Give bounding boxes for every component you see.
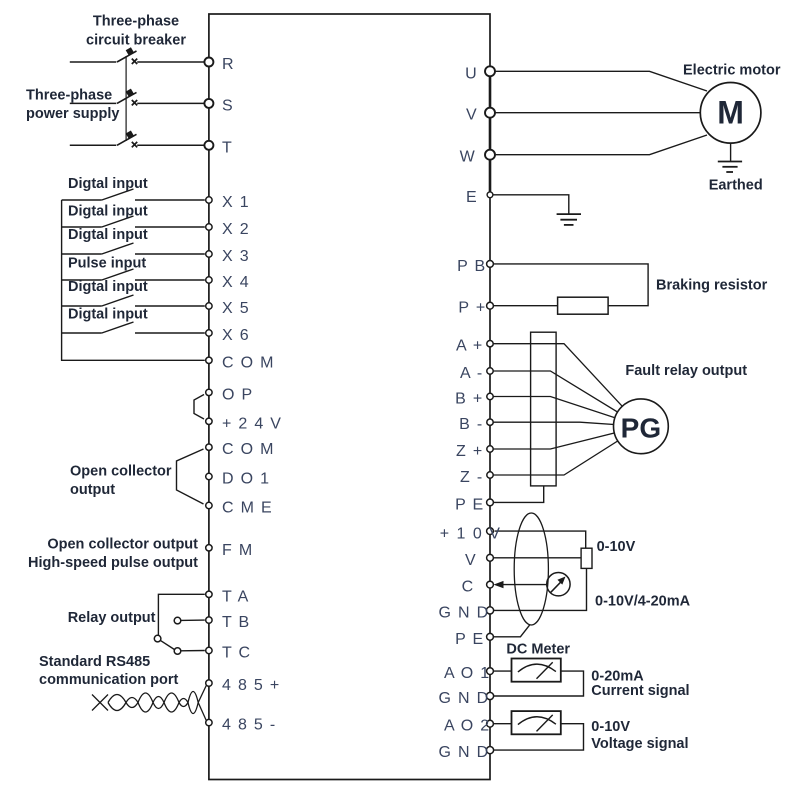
svg-text:0-10V/4-20mA: 0-10V/4-20mA — [595, 593, 691, 609]
terminal C — [462, 579, 494, 596]
svg-text:communication port: communication port — [39, 672, 179, 688]
svg-text:A O 2: A O 2 — [444, 718, 491, 735]
breaker pole R wire left — [70, 61, 117, 63]
wire motor to ground — [730, 143, 732, 161]
wiper adjuster — [547, 573, 570, 596]
wire Z+ to PG — [493, 426, 641, 449]
wire P+ to resistor — [494, 305, 558, 307]
breaker cross R — [132, 59, 137, 64]
jumper OP to +24V — [194, 395, 204, 420]
svg-text:S: S — [222, 97, 234, 114]
svg-text:C: C — [462, 579, 475, 596]
svg-text:Z -: Z - — [460, 469, 483, 486]
label digtal input X3 — [68, 227, 148, 243]
svg-text:W: W — [460, 149, 476, 166]
motor M1 — [700, 83, 761, 144]
wire right edge thick U-E — [489, 66, 492, 195]
svg-text:High-speed pulse output: High-speed pulse output — [28, 555, 198, 571]
svg-text:P E: P E — [455, 496, 484, 513]
terminal PE2 — [455, 631, 493, 648]
svg-text:0-20mA: 0-20mA — [591, 669, 644, 685]
svg-text:R: R — [222, 56, 235, 73]
svg-text:M: M — [717, 95, 744, 131]
wire PE to block — [493, 486, 544, 503]
wire B- to PG — [493, 422, 641, 426]
terminal Z- — [460, 469, 493, 486]
encoder PG — [614, 399, 669, 454]
bracket COM-DO1-CME open collector — [177, 449, 204, 504]
terminal AO1 — [444, 665, 493, 682]
switch X3 — [62, 243, 205, 254]
breaker blade R — [117, 47, 137, 62]
svg-text:E: E — [466, 189, 478, 206]
svg-text:X 3: X 3 — [222, 248, 250, 265]
svg-text:Three-phase: Three-phase — [26, 88, 112, 104]
svg-text:F M: F M — [222, 542, 253, 559]
wire V to pot — [493, 557, 581, 559]
label digtal input X2 — [68, 204, 148, 220]
svg-text:+ 2 4 V: + 2 4 V — [222, 415, 282, 432]
svg-text:0-10V: 0-10V — [597, 539, 636, 555]
svg-text:Digtal input: Digtal input — [68, 176, 148, 192]
terminal P+ — [458, 300, 493, 317]
svg-text:C M E: C M E — [222, 500, 273, 517]
wire Z- to PG — [493, 426, 641, 475]
breaker cross T — [132, 142, 137, 147]
wire PE2 to shield — [494, 625, 530, 637]
svg-text:power supply: power supply — [26, 106, 119, 122]
svg-text:X 2: X 2 — [222, 221, 250, 238]
breaker pole T wire left — [70, 144, 117, 146]
terminal X5 — [206, 300, 250, 317]
svg-text:A -: A - — [460, 365, 483, 382]
wire meter2 to GND — [494, 724, 584, 750]
svg-text:D O 1: D O 1 — [222, 471, 270, 488]
shield ellipse — [514, 513, 548, 625]
wire twisted pair to 485- — [198, 703, 206, 722]
svg-text:Digtal input: Digtal input — [68, 307, 148, 323]
terminal T — [204, 139, 233, 156]
svg-text:Standard RS485: Standard RS485 — [39, 654, 150, 670]
relay wire TA — [158, 594, 204, 636]
svg-text:Electric motor: Electric motor — [683, 63, 781, 79]
twisted pair cable — [92, 692, 198, 714]
relay contact TB — [174, 617, 205, 624]
terminal S — [204, 97, 234, 114]
wire pot to GND — [494, 568, 587, 610]
svg-text:+ 1 0 V: + 1 0 V — [440, 526, 502, 543]
svg-text:P E: P E — [455, 631, 484, 648]
svg-text:PG: PG — [621, 412, 661, 443]
svg-text:Three-phase: Three-phase — [93, 14, 179, 30]
wire AO2 to meter — [494, 723, 512, 725]
terminal X6 — [206, 327, 250, 344]
label three-phase circuit breaker — [86, 14, 186, 49]
wire meter1 to GND — [494, 671, 584, 696]
label relay output — [68, 610, 156, 626]
svg-text:Earthed: Earthed — [709, 178, 763, 194]
braking resistor RB — [558, 297, 609, 314]
terminal FM — [206, 542, 254, 559]
svg-text:Voltage signal: Voltage signal — [591, 736, 688, 752]
wire PB loop — [494, 264, 649, 306]
wire B+ to PG — [493, 397, 641, 427]
label open collector output DO1 — [70, 464, 172, 499]
breaker pole S wire left — [70, 102, 117, 104]
wire U to motor — [495, 71, 707, 91]
label fault relay output — [625, 363, 747, 379]
breaker cross S — [132, 100, 137, 105]
svg-text:O P: O P — [222, 386, 253, 403]
wire A- to PG — [493, 371, 641, 426]
svg-text:Open collector output: Open collector output — [47, 536, 198, 552]
label digtal input X1 — [68, 176, 148, 192]
svg-text:B -: B - — [459, 416, 483, 433]
svg-text:T B: T B — [222, 614, 251, 631]
terminal V — [466, 107, 495, 124]
terminal DO1 — [206, 471, 271, 488]
svg-text:G N D: G N D — [439, 744, 490, 761]
svg-text:X 1: X 1 — [222, 194, 250, 211]
relay blade — [160, 640, 175, 649]
terminal 485- — [206, 717, 277, 734]
svg-text:output: output — [70, 482, 115, 498]
label digtal input X6 — [68, 307, 148, 323]
terminal GND1 — [439, 604, 494, 621]
label 0-20mA current signal — [591, 669, 689, 700]
svg-text:Current signal: Current signal — [591, 683, 689, 699]
ground symbol E — [557, 214, 581, 225]
terminal B+ — [455, 391, 493, 408]
wire twisted pair to 485+ — [198, 685, 206, 703]
label 0-10V pot — [597, 539, 636, 555]
label 0-10V 4-20mA — [595, 593, 691, 609]
label open collector output FM — [28, 536, 198, 570]
svg-text:X 4: X 4 — [222, 274, 250, 291]
wire AO1 to meter — [494, 670, 512, 672]
switch X4 — [62, 269, 205, 280]
breaker blade T — [117, 131, 137, 146]
potentiometer resistor 0-10V — [581, 548, 592, 568]
switch X1 — [62, 189, 205, 200]
svg-text:X 6: X 6 — [222, 327, 250, 344]
svg-text:DC Meter: DC Meter — [506, 642, 570, 658]
terminal COM2 — [206, 441, 275, 458]
svg-text:V: V — [466, 107, 478, 124]
svg-text:0-10V: 0-10V — [591, 719, 630, 735]
svg-text:A O 1: A O 1 — [444, 665, 491, 682]
svg-text:Digtal input: Digtal input — [68, 279, 148, 295]
terminal GND3 — [439, 744, 494, 761]
terminal TC — [206, 645, 252, 662]
terminal B- — [459, 416, 493, 433]
svg-text:Fault relay output: Fault relay output — [625, 363, 747, 379]
terminal U — [465, 65, 495, 82]
terminal +24V — [206, 415, 283, 432]
svg-text:U: U — [465, 65, 478, 82]
terminal PB — [457, 258, 493, 275]
svg-text:Relay output: Relay output — [68, 610, 156, 626]
wire +10V to pot — [495, 531, 586, 548]
svg-text:C O M: C O M — [222, 354, 275, 371]
wire breaker T to terminal — [137, 144, 204, 146]
svg-text:Digtal input: Digtal input — [68, 227, 148, 243]
label standard RS485 port — [39, 654, 179, 688]
svg-text:P B: P B — [457, 258, 486, 275]
terminal TB — [206, 614, 251, 631]
terminal TA — [206, 588, 250, 605]
svg-text:A +: A + — [456, 338, 483, 355]
digital input common bus to COM — [62, 200, 205, 360]
label pulse input X4 — [68, 256, 146, 272]
terminal A+ — [456, 338, 493, 355]
terminal X4 — [206, 274, 250, 291]
breaker link bar — [125, 56, 127, 141]
wire wiper arrow to C — [494, 581, 548, 588]
svg-text:T: T — [222, 139, 233, 156]
terminal GND2 — [439, 690, 494, 707]
svg-text:Z +: Z + — [456, 443, 483, 460]
relay contact TC — [174, 648, 205, 655]
switch X2 — [62, 216, 205, 227]
label electric motor — [683, 63, 781, 79]
svg-text:X 5: X 5 — [222, 300, 250, 317]
label digtal input X5 — [68, 279, 148, 295]
svg-text:T A: T A — [222, 588, 250, 605]
label earthed — [709, 178, 763, 194]
terminal E — [466, 189, 493, 206]
wire V to motor — [495, 112, 700, 114]
terminal COM — [206, 354, 275, 371]
svg-text:B +: B + — [455, 391, 483, 408]
svg-text:Braking resistor: Braking resistor — [656, 278, 768, 294]
svg-text:Pulse input: Pulse input — [68, 256, 146, 272]
svg-text:Open collector: Open collector — [70, 464, 172, 480]
encoder terminal block — [531, 332, 557, 486]
ground symbol earthed — [718, 162, 742, 173]
terminal OP — [206, 386, 254, 403]
terminal X3 — [206, 248, 250, 265]
switch X6 — [62, 322, 205, 333]
DC meter 2 — [512, 711, 561, 734]
terminal W — [460, 149, 495, 166]
terminal V2 — [465, 552, 493, 569]
breaker blade S — [117, 89, 137, 104]
terminal X1 — [206, 194, 250, 211]
terminal R — [204, 56, 234, 73]
wire W to motor — [495, 135, 707, 155]
wire breaker R to terminal — [137, 61, 204, 63]
svg-text:C O M: C O M — [222, 441, 275, 458]
terminal CME — [206, 500, 273, 517]
DC meter 1 — [512, 659, 561, 682]
svg-text:P +: P + — [458, 300, 486, 317]
relay pole contact — [154, 635, 161, 642]
wire E to ground — [493, 195, 569, 214]
label 0-10V voltage signal — [591, 719, 688, 752]
terminal A- — [460, 365, 493, 382]
inverter box U1 — [209, 14, 490, 780]
label DC meter — [506, 642, 570, 658]
wire breaker S to terminal — [137, 102, 204, 104]
terminal X2 — [206, 221, 250, 238]
terminal +10V — [440, 526, 502, 543]
terminal AO2 — [444, 718, 493, 735]
label three-phase power supply — [26, 88, 119, 123]
svg-text:V: V — [465, 552, 477, 569]
terminal Z+ — [456, 443, 493, 460]
svg-text:Digtal input: Digtal input — [68, 204, 148, 220]
wire A+ to PG — [493, 344, 641, 427]
switch X5 — [62, 295, 205, 306]
svg-text:T C: T C — [222, 645, 251, 662]
svg-text:4 8 5 +: 4 8 5 + — [222, 677, 280, 694]
terminal 485+ — [206, 677, 281, 694]
svg-text:4 8 5 -: 4 8 5 - — [222, 717, 276, 734]
label braking resistor — [656, 278, 768, 294]
svg-text:circuit breaker: circuit breaker — [86, 32, 186, 48]
terminal PE1 — [455, 496, 493, 513]
svg-text:G N D: G N D — [439, 604, 490, 621]
svg-text:G N D: G N D — [439, 690, 490, 707]
